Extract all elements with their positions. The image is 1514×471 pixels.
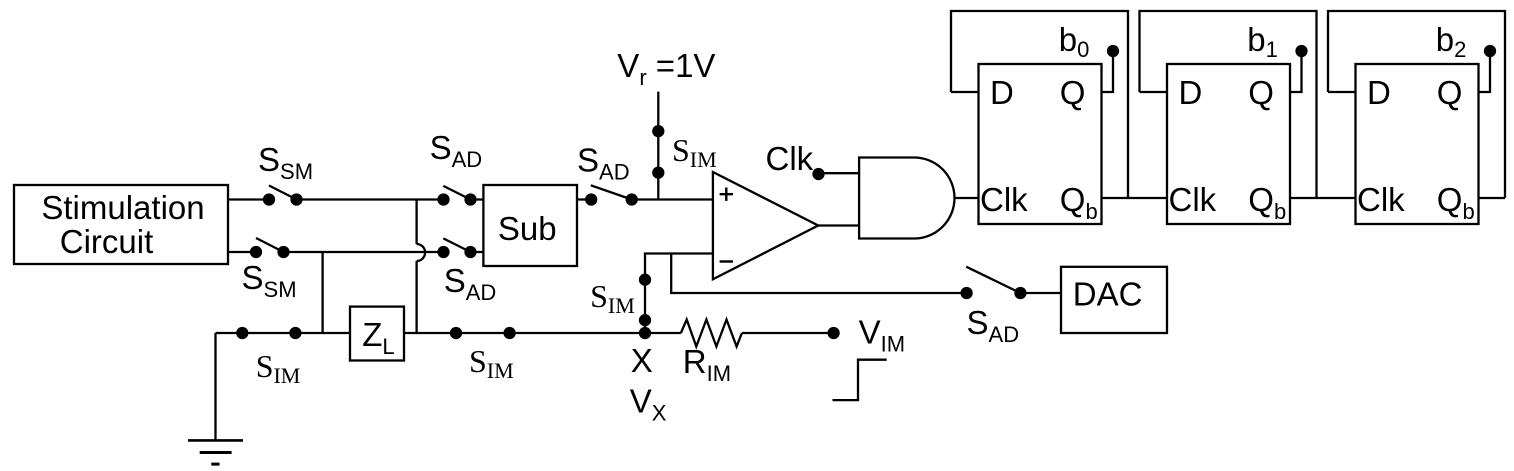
svg-text:D: D [1179, 74, 1203, 111]
svg-text:Vr =1V: Vr =1V [617, 47, 715, 90]
wire second from stimulation box to switch S_SM2 [228, 251, 251, 253]
svg-text:SIM: SIM [469, 343, 514, 383]
DAC box U_DAC [1061, 267, 1167, 333]
sub box U_SUB [483, 185, 577, 266]
FF2 Qb wire to outer loop [1479, 197, 1506, 199]
svg-text:SIM: SIM [256, 348, 301, 388]
plus sign on comparator [720, 188, 733, 201]
FF0 inner box [979, 64, 1102, 224]
switch S_SM2 [251, 238, 289, 257]
Clk terminal dot [814, 169, 824, 179]
svg-text:D: D [990, 74, 1014, 111]
svg-text:SIM: SIM [672, 132, 717, 172]
FF1 inner box [1167, 64, 1290, 224]
wire from S_SM1 to S_AD1 [302, 198, 439, 200]
Vr supply wire with closed switch S_IM1 [653, 92, 663, 200]
svg-text:Q: Q [1437, 74, 1463, 111]
svg-text:Circuit: Circuit [60, 223, 154, 260]
svg-text:X: X [631, 342, 653, 379]
svg-text:RIM: RIM [683, 343, 731, 386]
node X junction dot [640, 328, 650, 338]
svg-text:Clk: Clk [766, 140, 814, 177]
svg-text:DAC: DAC [1073, 276, 1143, 313]
wire top from stimulation box to switch S_SM1 [228, 198, 264, 200]
switch S_AD2 [439, 238, 476, 257]
wire from S_AD1 to Sub box [476, 198, 484, 200]
svg-text:VX: VX [630, 383, 667, 426]
svg-text:SSM: SSM [242, 259, 297, 302]
VIM terminal dot [829, 328, 839, 338]
svg-text:Q: Q [1248, 74, 1274, 111]
FF2 inner box [1356, 64, 1479, 224]
wire AND output to FF0 Clk [955, 197, 979, 199]
FF2 D input wire [1328, 91, 1356, 93]
svg-text:b1: b1 [1247, 21, 1278, 62]
svg-text:Clk: Clk [980, 181, 1028, 218]
wire DAC feedback from minus input node down and right [671, 254, 961, 294]
flip-flop FF2 outer feedback loop [1328, 11, 1505, 198]
minus sign on comparator [720, 260, 733, 262]
svg-text:Qb: Qb [1437, 181, 1475, 224]
wire from S_AD3 to comparator plus input [637, 198, 713, 200]
svg-text:b2: b2 [1436, 21, 1467, 62]
wire from Sub box to switch S_AD3 [577, 198, 586, 200]
svg-text:Q: Q [1060, 74, 1086, 111]
FF1 Qb wire to FF2 Clk [1290, 197, 1356, 199]
wire from S_AD2 to Sub box [476, 251, 484, 253]
svg-text:VIM: VIM [859, 314, 905, 357]
wire from S_AD4 to DAC box [1025, 292, 1061, 294]
ground symbol [188, 440, 243, 464]
wire from S_SM2 to S_AD2 [289, 251, 439, 253]
flip-flop FF0 outer feedback loop [951, 11, 1128, 198]
wire resistor to VIM terminal [742, 332, 834, 334]
wire Clk to AND gate [819, 172, 860, 174]
svg-text:Qb: Qb [1060, 181, 1098, 224]
wire vertical from node on L2 down to bus [321, 252, 323, 333]
svg-text:b0: b0 [1059, 21, 1090, 62]
svg-text:SAD: SAD [430, 129, 483, 172]
svg-text:SSM: SSM [258, 141, 313, 184]
FF0 D input wire [951, 91, 979, 93]
svg-text:Clk: Clk [1357, 181, 1405, 218]
svg-text:Stimulation: Stimulation [41, 189, 204, 226]
svg-text:Clk: Clk [1169, 181, 1217, 218]
FF1 D input wire [1140, 91, 1168, 93]
ground wire vertical [214, 333, 216, 440]
step waveform symbol [833, 360, 887, 400]
svg-text:Qb: Qb [1248, 181, 1286, 224]
stimulation circuit box U_STIM [14, 185, 228, 264]
wire comparator output to AND gate [818, 224, 859, 226]
closed switch S_IM3 dots [237, 328, 300, 338]
svg-text:ZL: ZL [362, 316, 394, 359]
bus wire from ground corner to ZL box [216, 332, 351, 334]
wire minus input from comparator to corner [645, 254, 713, 334]
resistor R_IM [681, 320, 742, 347]
FF0 Q stub and dot [1102, 46, 1119, 92]
switch S_AD1 [439, 186, 476, 205]
switch S_AD4 [962, 267, 1026, 298]
comparator U_CMP [713, 172, 818, 279]
closed switch S_IM4 dots [451, 328, 515, 338]
svg-text:SAD: SAD [444, 262, 497, 305]
switch S_AD3 [586, 185, 637, 204]
wire vertical from node on L1 down to bus with hop over L2 [417, 200, 426, 334]
FF0 Qb wire to FF1 Clk [1102, 197, 1168, 199]
bus wire from ZL box to node X [404, 332, 681, 334]
flip-flop FF1 outer feedback loop [1140, 11, 1317, 198]
switch S_SM1 [264, 186, 302, 205]
FF2 Q stub and dot [1479, 46, 1496, 92]
svg-text:Sub: Sub [498, 210, 557, 247]
svg-text:SAD: SAD [967, 304, 1020, 347]
svg-text:SIM: SIM [590, 278, 635, 318]
svg-text:D: D [1367, 74, 1391, 111]
AND gate U_AND [859, 158, 954, 239]
svg-text:SAD: SAD [577, 142, 630, 185]
ZL box [350, 307, 404, 361]
FF1 Q stub and dot [1290, 46, 1307, 92]
closed switch S_IM2 dots on vertical wire [640, 275, 650, 326]
